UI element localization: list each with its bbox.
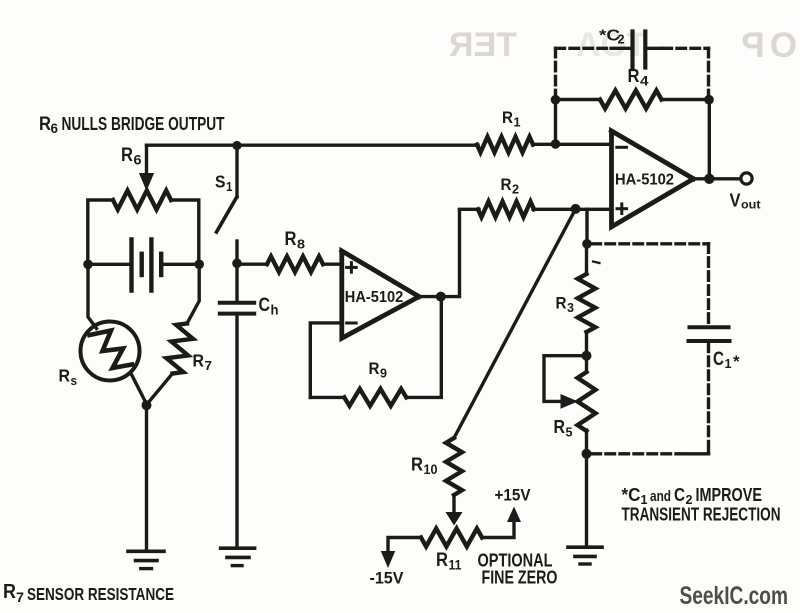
svg-text:IMPROVE: IMPROVE — [696, 485, 763, 505]
svg-text:6: 6 — [134, 152, 142, 168]
ghost bleed-through text top right — [443, 28, 517, 62]
battery plate long 2 — [149, 240, 153, 291]
ground R5 — [568, 545, 602, 549]
resistor R2 — [478, 202, 534, 218]
wire R5 to ground — [585, 454, 588, 547]
capacitor C1 plate bottom — [689, 339, 730, 343]
wire C1 dashed vert lower — [707, 343, 710, 441]
svg-text:R: R — [502, 109, 513, 127]
svg-text:*C: *C — [622, 485, 641, 505]
svg-text:h: h — [271, 302, 279, 318]
wire S1 upper — [235, 146, 238, 198]
wire bridge left down — [88, 264, 97, 328]
switch S1 blade — [217, 197, 237, 232]
svg-text:R: R — [285, 229, 297, 250]
resistor R10 — [446, 438, 462, 495]
svg-text:R: R — [369, 360, 380, 378]
resistor R4 — [600, 91, 662, 109]
svg-text:R: R — [121, 145, 133, 166]
wire R3 to R5 — [585, 332, 588, 372]
svg-text:*: * — [733, 352, 740, 371]
svg-text:C: C — [674, 485, 685, 505]
svg-text:6: 6 — [51, 120, 59, 136]
svg-text:9: 9 — [380, 367, 387, 381]
node bridge bottom — [142, 400, 152, 410]
wire C1 dashed top — [592, 242, 709, 245]
svg-text:V: V — [730, 191, 741, 211]
wire Rs to bottom node — [131, 373, 147, 404]
svg-text:11: 11 — [449, 558, 462, 573]
wire R5 bottom — [585, 430, 588, 454]
wire C2 lead right — [647, 47, 663, 50]
wire node to R8 — [237, 263, 267, 266]
svg-text:10: 10 — [424, 462, 438, 477]
wire U2 output — [694, 177, 741, 180]
svg-text:R: R — [501, 176, 512, 194]
wire Ch top — [235, 263, 238, 301]
wire C2 dashed vert left — [554, 48, 557, 97]
U2 minus pin — [617, 146, 627, 149]
capacitor Ch plate top — [220, 301, 254, 305]
wire R5 wiper loop — [544, 356, 587, 402]
wire R8 to op-amp U1 — [323, 263, 342, 266]
battery plate long 1 — [129, 240, 133, 291]
capacitor C2 plate right — [643, 32, 647, 68]
resistor R5 — [578, 372, 596, 431]
svg-text:and: and — [650, 489, 671, 505]
svg-text:5: 5 — [566, 425, 573, 440]
svg-text:-15V: -15V — [370, 569, 405, 588]
wire Ch bottom to ground — [235, 314, 238, 548]
wire R4 left lead — [556, 98, 601, 101]
wire R11 right lead — [482, 523, 514, 538]
U1 minus pin — [347, 322, 357, 325]
svg-text:S: S — [215, 172, 226, 192]
wire U1 output — [419, 210, 460, 297]
wire feedback bottom right — [406, 297, 441, 398]
svg-text:1: 1 — [514, 116, 521, 130]
svg-text:R: R — [193, 351, 205, 371]
svg-text:HA-5102: HA-5102 — [345, 289, 404, 306]
ground bridge — [128, 549, 164, 553]
svg-text:7: 7 — [205, 358, 213, 373]
capacitor C1 plate top — [690, 325, 729, 329]
wire R2 left — [460, 208, 480, 211]
wire C1 dashed vert upper — [707, 244, 710, 325]
svg-text:s: s — [71, 373, 78, 388]
wire R4 left vertical — [554, 100, 557, 145]
resistor R9 — [344, 389, 406, 406]
svg-text:+15V: +15V — [495, 486, 532, 505]
wiper arrow to R11 — [452, 495, 455, 514]
battery plate short 1 — [139, 254, 143, 275]
wire battery right lead — [162, 263, 199, 266]
U1 plus pin — [347, 266, 357, 269]
wire bridge right down — [187, 264, 199, 323]
wire R6 left lead — [88, 200, 113, 264]
wire C2 dashed vert right — [707, 48, 710, 97]
wire R3 top — [585, 209, 588, 244]
svg-text:R: R — [3, 581, 16, 603]
wire R11 left lead — [388, 538, 421, 551]
node bridge left — [83, 260, 93, 270]
node R4 left — [551, 95, 561, 105]
svg-text:1: 1 — [725, 356, 732, 371]
wire R4 right lead — [662, 98, 710, 101]
wire U1 minus to feedback — [310, 323, 342, 398]
wire bridge-output to R1 — [147, 143, 479, 146]
resistor R7 — [167, 324, 194, 374]
wire diagonal to R10 — [454, 209, 576, 438]
wire C2 lead left — [611, 47, 631, 50]
resistor R11 — [421, 529, 482, 547]
capacitor C2 plate left — [630, 32, 634, 68]
wire S1 lower contact — [235, 241, 238, 263]
svg-text:HA-5102: HA-5102 — [615, 171, 674, 188]
svg-text:4: 4 — [640, 74, 649, 89]
svg-text:R: R — [39, 114, 51, 135]
resistor R6 (bridge null pot) — [113, 191, 171, 210]
svg-text:SENSOR RESISTANCE: SENSOR RESISTANCE — [27, 584, 174, 604]
wiper arrow of R6 — [145, 145, 148, 174]
wire R6 right lead — [171, 200, 199, 264]
op-amp U2 HA-5102 — [612, 131, 694, 227]
sensor Rs circle — [81, 322, 140, 381]
svg-text:R: R — [554, 416, 566, 437]
svg-text:NULLS BRIDGE OUTPUT: NULLS BRIDGE OUTPUT — [62, 114, 225, 134]
svg-text:SeekIC.com: SeekIC.com — [680, 582, 789, 610]
node bridge right — [194, 260, 204, 270]
wire C2 dashed right — [663, 47, 709, 50]
node U1 output — [436, 292, 446, 302]
svg-text:R: R — [411, 454, 423, 475]
wire bridge bottom to ground — [145, 405, 148, 550]
arrow -15V — [381, 551, 395, 568]
svg-text:out: out — [741, 198, 761, 212]
node R5 bottom — [582, 449, 592, 459]
sensor Rs zigzag — [90, 331, 133, 369]
arrow R5 wiper — [561, 394, 579, 409]
svg-text:R: R — [59, 366, 71, 386]
node S1 top junction — [232, 141, 241, 150]
svg-text:R: R — [556, 295, 567, 313]
svg-text:TRANSIENT REJECTION: TRANSIENT REJECTION — [622, 505, 781, 525]
ground Ch — [221, 546, 255, 550]
stray mark — [593, 262, 600, 264]
wire C2 dashed left — [556, 47, 611, 50]
node R3 top — [582, 239, 592, 249]
node R2/U2+ — [571, 204, 581, 214]
node S1/R8/Ch — [232, 259, 242, 269]
wire R1 to U2 minus — [533, 143, 612, 146]
svg-text:2: 2 — [512, 183, 519, 197]
wire output vertical — [708, 100, 711, 179]
resistor R8 — [267, 256, 323, 272]
wire R2 to U2 plus — [533, 208, 612, 211]
U2 plus pin — [617, 207, 627, 210]
arrow +15V — [507, 507, 521, 523]
node R4 right — [704, 95, 714, 105]
svg-text:FINE ZERO: FINE ZERO — [482, 568, 558, 588]
svg-text:7: 7 — [16, 589, 24, 605]
battery plate short 2 — [159, 254, 163, 275]
svg-text:C: C — [713, 349, 724, 370]
resistor R1 — [477, 137, 533, 153]
capacitor Ch plate bottom — [220, 312, 254, 316]
svg-text:1: 1 — [226, 179, 233, 194]
op-amp U1 HA-5102 — [342, 251, 419, 338]
wire C1 dashed bottom — [707, 442, 710, 454]
svg-text:3: 3 — [567, 301, 574, 315]
wire battery left lead — [88, 263, 130, 266]
wire R7 to bottom node — [148, 374, 173, 404]
node R3/R5 — [582, 351, 592, 361]
svg-text:8: 8 — [297, 237, 305, 252]
wire feedback bottom left — [310, 396, 344, 399]
svg-text:C: C — [259, 295, 271, 316]
wire R3 upper lead — [585, 244, 588, 274]
node U2 output — [704, 174, 714, 184]
resistor R3 — [578, 274, 596, 332]
svg-text:2: 2 — [618, 33, 625, 47]
node R1/feedback — [551, 139, 561, 149]
svg-text:R: R — [436, 550, 448, 571]
terminal Vout — [741, 173, 752, 184]
